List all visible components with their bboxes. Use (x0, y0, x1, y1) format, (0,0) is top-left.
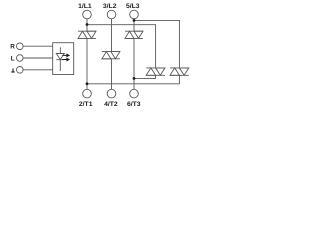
LED D1 anode lead (59, 47, 61, 53)
control input wire R (23, 45, 53, 47)
triac V5 (reversing, L3-T1) (170, 68, 189, 75)
wire L3 vertical upper (133, 19, 135, 31)
triac V1 (L1-T1) (78, 31, 96, 38)
triac V2 (L3-T3) (125, 31, 143, 38)
wire L3 vertical lower (133, 38, 135, 89)
junction node L3 branch (133, 19, 136, 22)
junction node L1 branch (86, 23, 89, 26)
control input wire L (23, 57, 53, 59)
wire triac A bottom to T3 node (134, 75, 156, 78)
LED D1 cathode bar (56, 59, 64, 61)
LED D1 cathode lead (59, 60, 61, 71)
svg-text:4/T2: 4/T2 (104, 101, 118, 108)
LED light arrow 2 (62, 58, 70, 62)
wire branch L3 to reversing triac B (134, 20, 179, 68)
control box U1 (53, 43, 74, 75)
terminal circle 2/T1 (83, 89, 92, 98)
label ground symbol (11, 69, 15, 73)
control input wire ground (23, 69, 53, 71)
wire branch L1 to reversing triac A (87, 25, 156, 68)
terminal circle 5/L3 (130, 10, 139, 19)
svg-text:6/T3: 6/T3 (127, 101, 141, 108)
terminal circle 6/T3 (130, 89, 139, 98)
triac V4 (reversing, L1-T3) (146, 68, 165, 75)
terminal circle 1/L1 (83, 10, 92, 19)
triac V3 (L2-T2) (102, 52, 120, 59)
wire L2 vertical upper (111, 19, 113, 52)
LED light arrow 1 (62, 53, 70, 57)
LED D1 triangle (56, 54, 64, 60)
svg-text:L: L (11, 55, 15, 62)
svg-text:R: R (10, 44, 15, 51)
svg-text:5/L3: 5/L3 (126, 3, 140, 10)
terminal circle R (17, 43, 24, 50)
terminal circle 3/L2 (107, 10, 116, 19)
junction node T3 branch (133, 77, 136, 80)
wire L1 vertical lower (86, 38, 88, 89)
wire triac B bottom to T1 node (87, 75, 179, 84)
terminal circle 4/T2 (107, 89, 116, 98)
svg-text:3/L2: 3/L2 (103, 3, 117, 10)
svg-text:2/T1: 2/T1 (79, 101, 93, 108)
svg-text:1/L1: 1/L1 (78, 3, 92, 10)
terminal circle ground (17, 67, 24, 74)
junction node T1 branch (86, 82, 89, 85)
wire L2 vertical lower (111, 59, 113, 89)
terminal circle L (17, 55, 24, 62)
wire L1 vertical upper (86, 19, 88, 31)
